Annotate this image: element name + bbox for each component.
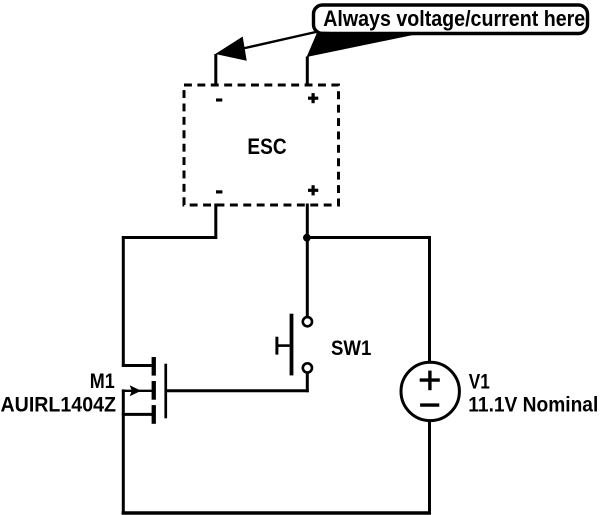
SW1 plunger horizontal xyxy=(277,344,290,347)
wire: left rail down to M1 drain xyxy=(122,236,125,367)
V1 circle xyxy=(401,362,459,420)
wire: horizontal to left rail xyxy=(122,236,217,239)
wire: M1 source/body rail to bottom xyxy=(122,389,125,514)
SW1 bottom contact circle xyxy=(303,363,312,372)
callout box "Always voltage/current here" xyxy=(314,5,588,34)
SW1 top contact circle xyxy=(303,317,312,326)
M1 gate bar xyxy=(164,364,167,419)
wire: ESC bottom-right stub down to SW1 xyxy=(306,204,309,318)
M1 body stub xyxy=(122,390,152,392)
svg-text:AUIRL1404Z: AUIRL1404Z xyxy=(1,393,117,416)
node: junction dot xyxy=(303,234,311,242)
transistor M1 xyxy=(122,357,167,424)
svg-text:ESC: ESC xyxy=(247,134,286,159)
ESC terminal label - (top left) xyxy=(216,98,222,101)
svg-text:V1: V1 xyxy=(469,370,490,393)
svg-text:M1: M1 xyxy=(90,370,115,393)
M1 body arrow xyxy=(130,385,142,396)
M1 channel bar middle xyxy=(152,381,156,400)
wire: ESC top-right stub xyxy=(306,57,309,87)
SW1 plunger cap xyxy=(275,337,278,355)
SW1 actuator bar xyxy=(290,314,294,376)
ESC terminal label - (bottom left) xyxy=(216,190,222,193)
wire: junction to V1 branch xyxy=(307,236,431,239)
wire: V1 top lead xyxy=(428,236,431,361)
wire: V1 bottom lead xyxy=(428,422,431,515)
V1 plus sign xyxy=(420,378,440,381)
voltage source V1 xyxy=(401,362,459,420)
M1 drain stub xyxy=(122,364,153,367)
ESC box xyxy=(184,85,339,205)
callout tail xyxy=(307,32,413,58)
svg-text:Always voltage/current here: Always voltage/current here xyxy=(323,6,585,31)
svg-text:11.1V Nominal: 11.1V Nominal xyxy=(468,394,598,417)
wire: SW1 bottom vertical xyxy=(306,372,309,392)
ESC terminal label + (top right) xyxy=(308,93,318,103)
wire: SW1 bottom to M1 gate xyxy=(166,389,309,392)
svg-text:SW1: SW1 xyxy=(331,337,372,360)
wire: ESC bottom-left stub xyxy=(214,204,217,239)
V1 minus sign xyxy=(420,403,439,406)
switch SW1 xyxy=(277,314,312,376)
M1 source stub xyxy=(122,413,153,416)
M1 channel bar bottom xyxy=(152,405,156,424)
annotation arrow line xyxy=(243,32,318,49)
ESC terminal label + (bottom right) xyxy=(308,185,318,195)
wire: bottom rail xyxy=(122,511,431,514)
annotation arrowhead xyxy=(215,37,246,61)
M1 channel bar top xyxy=(152,357,156,376)
wire: ESC top-left stub xyxy=(214,54,217,87)
